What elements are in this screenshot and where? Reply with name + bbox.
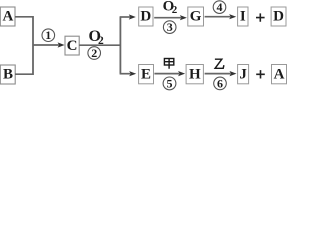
svg-text:2: 2 <box>91 46 97 60</box>
label jia (甲) drawn <box>164 59 173 69</box>
svg-text:E: E <box>141 66 151 82</box>
box E <box>139 65 154 84</box>
svg-text:B: B <box>3 67 13 83</box>
svg-text:G: G <box>190 9 202 25</box>
svg-text:2: 2 <box>172 4 178 16</box>
box D (first) <box>139 7 153 26</box>
label circled 1 <box>42 29 55 42</box>
arrow D to G <box>154 17 181 19</box>
svg-text:1: 1 <box>45 28 51 42</box>
box A (product, bottom-right) <box>272 65 287 84</box>
box B (bottom-left reactant B) <box>0 65 15 84</box>
plus sign (top) <box>256 13 265 21</box>
svg-text:D: D <box>140 9 151 25</box>
svg-text:D: D <box>273 9 284 25</box>
arrow branch to D <box>120 16 130 18</box>
box C <box>65 36 79 55</box>
svg-text:H: H <box>189 66 201 82</box>
svg-text:I: I <box>240 9 246 25</box>
arrow H to J <box>205 73 231 75</box>
svg-text:3: 3 <box>167 20 173 34</box>
box A (top-left reactant A) <box>0 7 15 26</box>
wire C to branch <box>79 44 120 46</box>
box D (second) <box>271 7 286 26</box>
arrow branch to E <box>120 73 131 75</box>
label circled 2 <box>88 47 101 60</box>
wire A to junction <box>15 16 33 18</box>
svg-text:C: C <box>67 38 78 54</box>
label circled 6 <box>214 77 227 90</box>
label circled 5 <box>163 77 176 90</box>
svg-text:6: 6 <box>217 76 223 90</box>
box J <box>238 65 249 84</box>
label circled 4 <box>213 1 226 14</box>
wire B to junction <box>15 73 33 75</box>
arrow E to H <box>154 73 179 75</box>
svg-text:J: J <box>239 66 247 82</box>
svg-text:A: A <box>274 66 285 82</box>
arrow into C <box>33 44 59 46</box>
svg-text:4: 4 <box>217 0 223 14</box>
box G <box>188 7 204 26</box>
wire junction vertical <box>32 16 34 75</box>
plus sign (bottom) <box>256 70 265 78</box>
box H <box>186 65 203 84</box>
arrow G to I <box>205 16 231 18</box>
label circled 3 <box>163 21 176 34</box>
svg-text:2: 2 <box>98 35 104 47</box>
branch vertical wire <box>119 17 121 74</box>
svg-text:A: A <box>2 9 13 25</box>
svg-text:5: 5 <box>167 76 173 90</box>
box I <box>238 7 248 26</box>
label yi (乙) drawn <box>215 59 224 68</box>
